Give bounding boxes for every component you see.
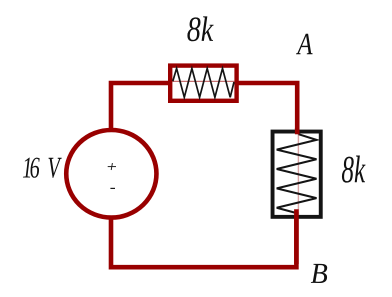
wire top-right segment to node A corner — [238, 83, 297, 133]
resistor R2 box — [273, 132, 321, 217]
R1 through-wire thin — [172, 80, 234, 82]
resistor R1 box — [170, 66, 236, 101]
label 8k top — [187, 16, 213, 41]
wire bottom U segment — [111, 217, 296, 267]
wire top-left segment — [111, 83, 169, 131]
R2 through-wire thin — [297, 133, 299, 215]
R2 zigzag — [277, 134, 317, 213]
wire stub over R2 top edge — [295, 128, 300, 134]
node A label — [296, 34, 313, 54]
R1 zigzag — [173, 68, 234, 97]
label 16 V — [23, 158, 62, 178]
wire stub over R2 bottom edge — [294, 209, 299, 264]
voltage source V1 — [66, 130, 156, 218]
node B label — [311, 264, 327, 283]
label 8k right — [342, 156, 366, 183]
minus sign — [110, 187, 115, 189]
plus sign — [108, 163, 116, 170]
